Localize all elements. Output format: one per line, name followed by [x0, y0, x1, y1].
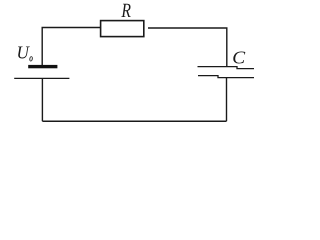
wire resistor right to capacitor top: [148, 28, 227, 67]
battery U0 (voltage source): [14, 65, 69, 79]
label R: [121, 4, 130, 17]
wire battery- to bottom-left corner: [41, 78, 43, 121]
wire capacitor bottom to bottom-right corner: [226, 78, 228, 122]
capacitor C: [198, 67, 255, 78]
label U0: [18, 47, 32, 62]
label C: [233, 52, 245, 64]
wire bottom return: [42, 120, 226, 122]
wire battery+ to resistor left: [42, 28, 100, 66]
resistor R: [101, 21, 144, 37]
